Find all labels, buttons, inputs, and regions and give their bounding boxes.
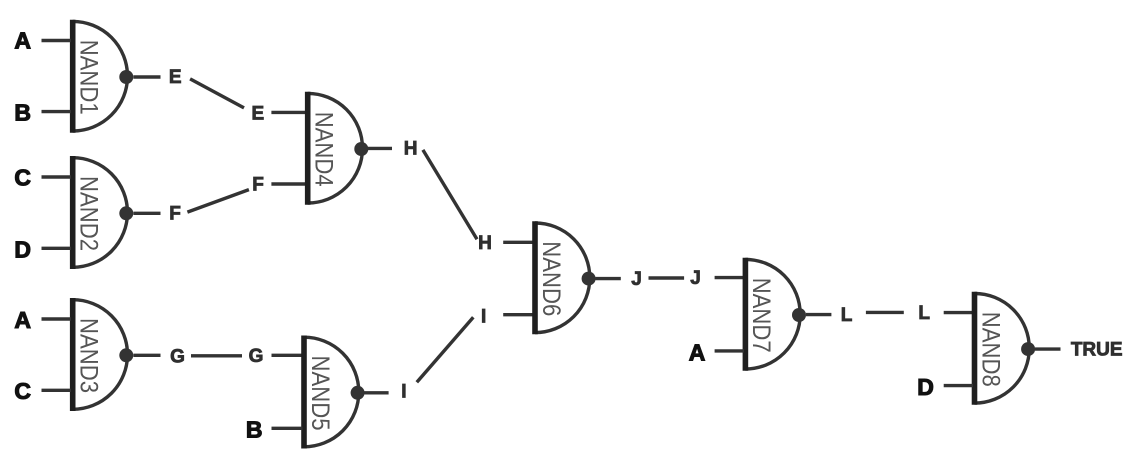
svg-text:TRUE: TRUE xyxy=(1071,340,1123,361)
wire node L link wire xyxy=(866,311,904,314)
input label B (NAND1) xyxy=(14,100,31,126)
svg-text:D: D xyxy=(14,236,31,262)
gate label NAND7 xyxy=(747,278,775,353)
wire diagonal F to NAND4 xyxy=(187,190,249,213)
output bubble of NAND7 xyxy=(792,308,806,322)
node label H (at NAND4 output) xyxy=(404,139,418,160)
NAND gate NAND5 body xyxy=(304,336,359,449)
wire input A to NAND3 xyxy=(42,317,72,320)
svg-text:NAND5: NAND5 xyxy=(306,356,334,431)
svg-text:NAND4: NAND4 xyxy=(310,112,338,187)
wire input C to NAND3 xyxy=(42,389,72,392)
wire node G to NAND5 input xyxy=(272,354,303,357)
node label I (at NAND6 input) xyxy=(481,307,486,328)
wire output of NAND4 to node H xyxy=(368,147,392,150)
NAND gate NAND7 body xyxy=(745,258,800,371)
wire output of NAND1 to node E xyxy=(133,75,160,78)
node label E (at NAND1 output) xyxy=(169,67,182,88)
node label E (at NAND4 input) xyxy=(252,103,265,124)
wire output of NAND5 to node I xyxy=(364,391,388,394)
NAND gate NAND4 body xyxy=(308,92,363,205)
input label B (NAND5) xyxy=(246,417,263,443)
output bubble of NAND6 xyxy=(582,272,596,286)
svg-text:G: G xyxy=(170,347,185,368)
output bubble of NAND4 xyxy=(354,142,368,156)
svg-text:I: I xyxy=(481,307,486,328)
gate label NAND6 xyxy=(537,241,565,316)
node label G (at NAND3 output) xyxy=(170,347,185,368)
svg-text:G: G xyxy=(249,346,264,367)
svg-text:B: B xyxy=(14,100,31,126)
wire diagonal E to NAND4 xyxy=(190,79,244,108)
wire output of NAND8 to TRUE xyxy=(1035,347,1061,350)
svg-text:E: E xyxy=(252,103,265,124)
svg-text:A: A xyxy=(14,28,31,54)
wire output of NAND3 to node G xyxy=(133,354,160,357)
input label D (NAND8) xyxy=(917,374,934,400)
svg-text:J: J xyxy=(690,268,701,289)
NAND gate NAND3 body xyxy=(73,298,128,411)
input label A (NAND1) xyxy=(14,28,31,54)
gate label NAND1 xyxy=(75,40,103,115)
node label J (at NAND7 input) xyxy=(690,268,701,289)
svg-text:F: F xyxy=(252,174,264,195)
node label L (at NAND8 input) xyxy=(918,303,930,324)
node label F (at NAND2 output) xyxy=(169,204,181,225)
svg-text:H: H xyxy=(404,139,418,160)
svg-text:E: E xyxy=(169,67,182,88)
svg-text:L: L xyxy=(918,303,930,324)
wire node H to NAND6 input xyxy=(503,241,533,244)
node label J (at NAND6 output) xyxy=(631,269,642,290)
output bubble of NAND2 xyxy=(119,206,133,220)
wire input B to NAND5 xyxy=(272,427,303,430)
svg-text:C: C xyxy=(14,164,31,190)
output bubble of NAND5 xyxy=(351,386,365,400)
input label A (NAND7) xyxy=(689,339,706,365)
input label C (NAND2) xyxy=(14,164,31,190)
NAND gate NAND2 body xyxy=(73,156,128,269)
svg-text:I: I xyxy=(401,381,406,402)
wire output of NAND7 to node L xyxy=(806,313,832,316)
node label G (at NAND5 input) xyxy=(249,346,264,367)
node label H (at NAND6 input) xyxy=(478,233,492,254)
wire diagonal H to NAND6 xyxy=(423,150,477,239)
NAND gate NAND6 body xyxy=(535,221,590,334)
svg-text:NAND8: NAND8 xyxy=(976,312,1004,387)
input label C (NAND3) xyxy=(14,378,31,404)
node label I (at NAND5 output) xyxy=(401,381,406,402)
output bubble of NAND8 xyxy=(1021,342,1035,356)
svg-text:L: L xyxy=(841,305,853,326)
gate label NAND5 xyxy=(306,356,334,431)
gate label NAND4 xyxy=(310,112,338,187)
gate label NAND8 xyxy=(976,312,1004,387)
svg-text:NAND2: NAND2 xyxy=(75,176,103,251)
svg-text:NAND7: NAND7 xyxy=(747,278,775,353)
wire input D to NAND2 xyxy=(42,247,72,250)
svg-text:D: D xyxy=(917,374,934,400)
NAND gate NAND8 body xyxy=(975,292,1030,405)
node label L (at NAND7 output) xyxy=(841,305,853,326)
svg-text:H: H xyxy=(478,233,492,254)
wire output of NAND6 to node J xyxy=(596,277,621,280)
svg-text:F: F xyxy=(169,204,181,225)
wire input D to NAND8 xyxy=(944,384,973,387)
output label TRUE xyxy=(1071,340,1123,361)
wire node I to NAND6 input xyxy=(503,313,533,316)
gate label NAND3 xyxy=(75,318,103,393)
svg-text:NAND1: NAND1 xyxy=(75,40,103,115)
wire input C to NAND2 xyxy=(42,175,72,178)
wire input A to NAND1 xyxy=(42,39,72,42)
node label F (at NAND4 input) xyxy=(252,174,264,195)
wire node J link wire xyxy=(649,276,685,279)
svg-text:C: C xyxy=(14,378,31,404)
wire diagonal I to NAND6 xyxy=(417,317,474,382)
output bubble of NAND1 xyxy=(119,70,133,84)
output bubble of NAND3 xyxy=(119,348,133,362)
svg-text:NAND3: NAND3 xyxy=(75,318,103,393)
svg-text:NAND6: NAND6 xyxy=(537,241,565,316)
wire input A to NAND7 xyxy=(715,349,744,352)
svg-text:B: B xyxy=(246,417,263,443)
wire node E to NAND4 input xyxy=(271,111,306,114)
wire input B to NAND1 xyxy=(42,110,72,113)
wire node F to NAND4 input xyxy=(271,182,306,185)
wire node G link wire xyxy=(191,354,242,357)
wire node J to NAND7 input xyxy=(715,276,744,279)
wire node L to NAND8 input xyxy=(944,311,973,314)
svg-text:A: A xyxy=(14,307,31,333)
svg-text:A: A xyxy=(689,339,706,365)
input label A (NAND3) xyxy=(14,307,31,333)
svg-text:J: J xyxy=(631,269,642,290)
gate label NAND2 xyxy=(75,176,103,251)
wire output of NAND2 to node F xyxy=(133,212,160,215)
NAND gate NAND1 body xyxy=(73,20,128,133)
input label D (NAND2) xyxy=(14,236,31,262)
